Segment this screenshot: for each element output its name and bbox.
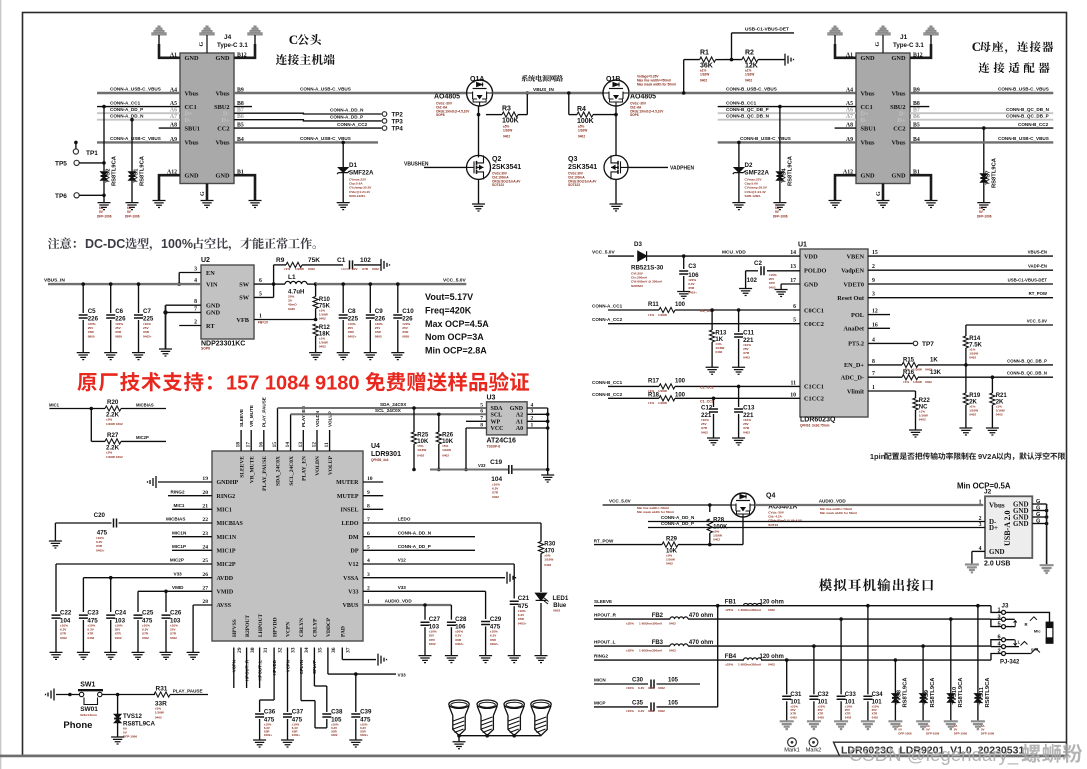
svg-text:DP: DP xyxy=(351,549,359,555)
svg-text:MIC2P: MIC2P xyxy=(136,435,149,440)
svg-text:100: 100 xyxy=(675,378,686,384)
svg-text:C37: C37 xyxy=(292,709,304,716)
resistor R1 36K xyxy=(683,60,685,93)
svg-text:102: 102 xyxy=(360,257,371,264)
svg-text:GND: GND xyxy=(206,303,220,310)
svg-text:G: G xyxy=(200,191,206,196)
svg-text:0402: 0402 xyxy=(715,350,722,354)
svg-text:100K: 100K xyxy=(502,118,519,125)
svg-text:C1CC1: C1CC1 xyxy=(804,384,824,391)
svg-text:C: C xyxy=(972,39,981,54)
svg-text:G: G xyxy=(1036,519,1040,525)
capacitor C10 xyxy=(396,282,400,286)
title block box xyxy=(834,742,1067,756)
svg-text:RS8TL9CA: RS8TL9CA xyxy=(930,677,936,708)
svg-text:1pin: 1pin xyxy=(870,452,886,461)
svg-text:13K: 13K xyxy=(930,370,942,376)
net AUDIO_VDD to J2 xyxy=(755,504,983,506)
svg-text:0402: 0402 xyxy=(155,716,162,720)
TVS12 diode xyxy=(117,695,119,738)
svg-text:24: 24 xyxy=(202,545,208,551)
svg-text:1/16W: 1/16W xyxy=(417,448,426,452)
svg-text:R31: R31 xyxy=(156,686,168,693)
svg-text:C31: C31 xyxy=(790,692,802,698)
net VBUSHEN to Q2 gate xyxy=(424,166,467,168)
svg-text:FB=1V: FB=1V xyxy=(258,321,269,325)
diode D3 RB521S-30 xyxy=(638,251,647,261)
svg-text:C36: C36 xyxy=(264,709,276,716)
svg-text:0402: 0402 xyxy=(769,285,776,289)
svg-text:LDR9301: LDR9301 xyxy=(371,451,401,458)
net CONN-B_USB-C_VBUS (J1 B4) xyxy=(910,141,1053,143)
svg-text:G: G xyxy=(199,42,205,47)
chassis symbol at R2 end xyxy=(785,54,794,66)
chassis at SW1 left xyxy=(46,689,55,701)
junction R1-R2 xyxy=(730,58,734,62)
test point TP5 xyxy=(74,160,79,165)
net CONN-A_DD_N to J2 xyxy=(648,521,985,523)
VFB node xyxy=(254,319,316,321)
svg-text:R15: R15 xyxy=(903,357,915,363)
svg-text:GND: GND xyxy=(892,55,906,62)
svg-text:SMF22A: SMF22A xyxy=(349,170,374,177)
svg-text:R13: R13 xyxy=(715,331,727,337)
svg-text:VR_MUTE: VR_MUTE xyxy=(249,456,255,484)
svg-text:C13: C13 xyxy=(743,405,755,412)
svg-text:CRLYN: CRLYN xyxy=(299,618,305,637)
svg-text:Vlimit: Vlimit xyxy=(847,388,865,395)
svg-text:VBUSHEN: VBUSHEN xyxy=(404,162,429,168)
svg-text:Max OCP=4.5A: Max OCP=4.5A xyxy=(425,319,489,329)
svg-text:Type-C 3.1: Type-C 3.1 xyxy=(217,42,248,49)
svg-text:U1: U1 xyxy=(798,242,807,249)
svg-text:CRLYP: CRLYP xyxy=(313,618,319,637)
svg-text:CONN-B_USB-C_VBUS: CONN-B_USB-C_VBUS xyxy=(726,87,777,92)
svg-text:GND: GND xyxy=(861,173,875,180)
net VBUS-EN xyxy=(868,255,1053,257)
svg-text:SLEEVE: SLEEVE xyxy=(239,456,245,478)
svg-text:102: 102 xyxy=(747,277,758,284)
capacitor C13 221 xyxy=(737,385,741,389)
svg-text:0402: 0402 xyxy=(372,267,379,271)
svg-text:10: 10 xyxy=(790,392,796,398)
svg-text:±5%: ±5% xyxy=(106,451,112,455)
svg-text:±1%: ±1% xyxy=(648,401,654,405)
svg-text:L: L xyxy=(1018,639,1021,644)
svg-text:1/16W: 1/16W xyxy=(295,267,304,271)
U4 bottom stubs pins 29-31 xyxy=(233,648,235,689)
net RT_POW / resistor R29 10K xyxy=(594,544,662,546)
svg-text:V33: V33 xyxy=(174,571,183,576)
svg-text:MIC1N: MIC1N xyxy=(172,530,187,535)
svg-text:C20: C20 xyxy=(94,512,106,519)
svg-text:1: 1 xyxy=(259,314,262,320)
svg-text:4: 4 xyxy=(367,558,370,564)
svg-text:R19: R19 xyxy=(969,393,981,399)
svg-text:HPOUT_R: HPOUT_R xyxy=(244,659,249,681)
net D+ (B6) to DD_P xyxy=(234,120,382,121)
svg-text:1/16W: 1/16W xyxy=(658,401,667,405)
svg-text:31: 31 xyxy=(263,647,269,653)
net VADPHEN to Q3 gate xyxy=(628,166,668,168)
watermark CSDN @legendary_螺蛳粉 xyxy=(849,744,1082,766)
svg-text:0402+: 0402+ xyxy=(518,621,527,625)
svg-text:C2: C2 xyxy=(754,260,762,267)
capacitor C2 102 xyxy=(767,270,800,272)
svg-text:R4: R4 xyxy=(577,106,586,113)
svg-text:SW: SW xyxy=(239,281,250,288)
net RT_POW xyxy=(868,297,1053,299)
net RING2 pin20 xyxy=(168,495,212,497)
stub SBU1 (J1 A8) xyxy=(835,127,856,129)
svg-text:Vbus: Vbus xyxy=(185,90,200,97)
net DP CONN-A_DD_P xyxy=(363,549,475,551)
svg-text:RS8TL9CA: RS8TL9CA xyxy=(958,677,964,708)
svg-text:FB4: FB4 xyxy=(725,654,737,660)
svg-text:LDR6023Q: LDR6023Q xyxy=(800,417,836,424)
wire A12 to ground xyxy=(835,175,856,200)
svg-text:0402+: 0402+ xyxy=(143,334,152,338)
svg-text:C23: C23 xyxy=(87,610,99,617)
capacitor C9 xyxy=(369,282,373,286)
wire bottom shield G to ground xyxy=(882,184,885,201)
net SLEEVE / FB1 120ohm xyxy=(594,605,991,607)
wire MICP rise to SLEEVE xyxy=(717,606,719,707)
capacitor C26 103 xyxy=(162,615,171,618)
svg-text:C: C xyxy=(289,32,298,47)
junction SW node xyxy=(254,283,274,285)
svg-text:VCC_5.0V: VCC_5.0V xyxy=(592,250,615,256)
svg-text:1/16W: 1/16W xyxy=(503,128,512,132)
IC U2 NDP23301KC xyxy=(201,265,254,339)
svg-text:EN_D+: EN_D+ xyxy=(844,362,864,369)
capacitor C34 101 xyxy=(866,604,870,608)
svg-text:LEDO: LEDO xyxy=(341,521,358,527)
svg-text:R28: R28 xyxy=(713,518,725,524)
svg-text:GND: GND xyxy=(185,55,199,62)
net B4 VBUS xyxy=(234,141,378,143)
svg-text:0402+: 0402+ xyxy=(360,733,368,737)
svg-text:SW01: SW01 xyxy=(80,706,98,713)
svg-text:VMID: VMID xyxy=(172,585,184,590)
svg-text:DFP-1006: DFP-1006 xyxy=(123,735,137,739)
svg-text:CONN-A_DD_N: CONN-A_DD_N xyxy=(398,530,432,535)
svg-text:1/16W 0402: 1/16W 0402 xyxy=(106,455,123,459)
connector J1 body xyxy=(856,53,910,184)
wire J2 GND to ground xyxy=(972,550,985,552)
resistor R3 100K xyxy=(486,114,502,116)
svg-text:MIC1: MIC1 xyxy=(49,402,60,407)
stub SBU1 (A8) xyxy=(159,127,180,129)
svg-text:VIN: VIN xyxy=(206,281,218,288)
svg-text:VadpEN: VadpEN xyxy=(841,268,864,275)
junction R1 branch xyxy=(682,91,686,95)
svg-text:±5%: ±5% xyxy=(106,418,112,422)
svg-text:CONN-A_DD_P: CONN-A_DD_P xyxy=(110,107,143,112)
svg-text:1 60Ohm350mA: 1 60Ohm350mA xyxy=(738,663,762,667)
svg-text:VOLDN: VOLDN xyxy=(315,456,321,476)
svg-text:Type-C 3.1: Type-C 3.1 xyxy=(893,42,924,49)
U4 top stubs with net labels xyxy=(240,430,242,451)
wire HPVDD pin32 to C36 xyxy=(273,648,275,701)
svg-text:SCL: SCL xyxy=(491,413,503,419)
power earth symbols above J4 xyxy=(152,26,166,35)
svg-text:C1: C1 xyxy=(337,257,346,264)
svg-text:GND: GND xyxy=(892,173,906,180)
svg-text:C8: C8 xyxy=(348,308,356,315)
svg-text:R27: R27 xyxy=(107,432,119,439)
LED1 Blue xyxy=(536,593,549,604)
heading 连接主机端 xyxy=(276,54,335,65)
svg-text:±25%: ±25% xyxy=(725,663,733,667)
svg-text:USB-C1-VBUS-DET: USB-C1-VBUS-DET xyxy=(1008,278,1048,283)
svg-text:1/16W: 1/16W xyxy=(658,389,667,393)
resistor R4 100K xyxy=(568,93,570,115)
svg-text:J2: J2 xyxy=(984,489,992,496)
svg-text:GND: GND xyxy=(185,173,199,180)
svg-text:R20: R20 xyxy=(107,399,119,406)
TVS9 diode xyxy=(921,644,925,648)
capacitor C5 xyxy=(81,282,85,286)
svg-text:DFP-1006: DFP-1006 xyxy=(898,732,912,736)
svg-text:470 ohm: 470 ohm xyxy=(689,613,713,619)
svg-text:gnd: gnd xyxy=(1031,647,1039,652)
svg-text:0402: 0402 xyxy=(87,636,94,640)
svg-text:0402: 0402 xyxy=(442,454,449,458)
svg-text:CONN-B_QC_DB_P: CONN-B_QC_DB_P xyxy=(1007,358,1047,363)
svg-text:GND: GND xyxy=(206,310,220,317)
resistor R9 75K xyxy=(273,265,275,284)
chassis on GNDHP pin19 xyxy=(158,481,212,483)
stub SBU2 (J1 B8) xyxy=(910,106,929,108)
svg-text:28: 28 xyxy=(202,599,208,605)
svg-text:FB2: FB2 xyxy=(652,613,664,619)
svg-text:SOT23: SOT23 xyxy=(768,523,778,527)
svg-text:TP5: TP5 xyxy=(55,161,67,168)
svg-text:G: G xyxy=(1036,506,1040,512)
frame bottom thick line xyxy=(0,755,1066,758)
svg-text:C22: C22 xyxy=(60,610,72,617)
net CONN-A_CC1 / R11 xyxy=(608,309,659,311)
svg-text:120 ohm: 120 ohm xyxy=(760,599,784,605)
svg-text:USB-A 2.0: USB-A 2.0 xyxy=(1003,510,1012,546)
svg-text:25: 25 xyxy=(202,558,208,564)
svg-text:Vbus: Vbus xyxy=(989,501,1005,509)
svg-text:C28: C28 xyxy=(455,616,467,623)
svg-text:1 60Ohm350mA: 1 60Ohm350mA xyxy=(639,649,663,653)
svg-text:VMID: VMID xyxy=(217,590,234,596)
svg-text:1/16W: 1/16W xyxy=(700,72,709,76)
svg-text:±10%: ±10% xyxy=(626,709,634,713)
svg-text:VCC_5.0V: VCC_5.0V xyxy=(609,499,632,504)
resistor R21 2K xyxy=(991,377,993,393)
net USB-C1-VBUS-DET xyxy=(868,283,1053,285)
svg-text:DFP-1006: DFP-1006 xyxy=(773,215,788,219)
capacitor C33 101 xyxy=(839,617,843,621)
svg-text:C25: C25 xyxy=(142,610,154,617)
page edge line xyxy=(0,0,2,769)
svg-text:L1: L1 xyxy=(288,274,296,281)
svg-text:C10: C10 xyxy=(402,308,414,315)
svg-text:TP7: TP7 xyxy=(922,341,934,348)
D2 TVS diode SMF22A xyxy=(737,141,741,145)
svg-text:105: 105 xyxy=(668,678,679,684)
capacitor C8 xyxy=(341,282,345,286)
net MCU_VDD xyxy=(646,255,800,257)
svg-text:MICBIAS: MICBIAS xyxy=(166,517,185,522)
svg-text:D+: D+ xyxy=(989,524,998,532)
resistor R25 10K xyxy=(412,406,416,410)
wire A1 to earth xyxy=(835,44,856,58)
svg-text:Nom OCP=3A: Nom OCP=3A xyxy=(425,332,484,342)
svg-text:SOT323: SOT323 xyxy=(492,183,504,187)
wire SW1 to R31 xyxy=(102,694,155,696)
capacitor C36 475 xyxy=(255,714,264,717)
svg-text:MICP: MICP xyxy=(594,701,605,706)
svg-text:30: 30 xyxy=(250,647,256,653)
svg-text:2: 2 xyxy=(194,320,197,326)
J3 L-channel contact xyxy=(1005,639,1014,641)
net HPOUT_L / FB3 470ohm xyxy=(594,645,670,647)
svg-text:V12: V12 xyxy=(348,562,358,568)
svg-text:5: 5 xyxy=(259,291,262,297)
svg-text:Vbus: Vbus xyxy=(891,90,906,97)
svg-text:G: G xyxy=(875,42,881,47)
svg-text:0402: 0402 xyxy=(701,430,708,434)
svg-text:PLAY_EN: PLAY_EN xyxy=(302,456,308,481)
stub RT pin xyxy=(179,325,201,327)
wire U3 GND/A pins to ground xyxy=(527,407,548,409)
svg-text:G: G xyxy=(1036,499,1040,505)
net VMID pin27 xyxy=(138,590,212,592)
svg-text:0402: 0402 xyxy=(658,686,665,690)
svg-text:36: 36 xyxy=(331,647,337,653)
net EN_D+ / R15 1K xyxy=(868,364,902,366)
svg-text:9: 9 xyxy=(367,490,370,496)
capacitor C3 106 xyxy=(682,254,686,258)
svg-text:RB521S-30: RB521S-30 xyxy=(631,265,664,272)
svg-text:PT5.2: PT5.2 xyxy=(848,341,864,348)
svg-text:C27: C27 xyxy=(429,616,441,623)
svg-text:23: 23 xyxy=(202,531,208,537)
test point TP6 xyxy=(74,193,79,198)
svg-text:V33: V33 xyxy=(398,672,407,677)
svg-text:C12: C12 xyxy=(701,405,713,412)
svg-text:R2: R2 xyxy=(745,50,754,57)
net D- (B7) to DD_N xyxy=(234,112,382,115)
svg-text:D2: D2 xyxy=(745,162,753,169)
svg-text:Vbus: Vbus xyxy=(215,90,230,97)
svg-text:AnaDet: AnaDet xyxy=(843,326,865,333)
svg-text:SOD-123FL: SOD-123FL xyxy=(349,194,366,198)
svg-text:0402: 0402 xyxy=(790,715,797,719)
net CONN-A_USB-C_VBUS (A9) xyxy=(97,141,180,143)
wire EN tie xyxy=(179,272,201,274)
resistor R31 33R xyxy=(154,692,170,697)
screw 4 xyxy=(531,700,551,736)
chassis on VSSA pin3 xyxy=(363,577,505,579)
svg-text:EN: EN xyxy=(206,270,215,277)
svg-text:J3: J3 xyxy=(1002,603,1009,610)
net AVSS pin28 to ground xyxy=(193,604,212,606)
svg-text:FB3: FB3 xyxy=(652,640,664,646)
svg-text:0402+: 0402+ xyxy=(455,642,464,646)
svg-text:C6: C6 xyxy=(115,308,123,315)
svg-text:9: 9 xyxy=(872,278,875,284)
stub AnaDet xyxy=(868,327,890,329)
resistor R13 1K xyxy=(710,308,714,312)
svg-text:MCU_VDD: MCU_VDD xyxy=(722,250,746,256)
net ADC_D- / R16 13K xyxy=(868,376,902,378)
svg-text:MIC1P: MIC1P xyxy=(217,549,236,555)
svg-text:37: 37 xyxy=(346,647,352,653)
svg-text:5: 5 xyxy=(367,545,370,551)
svg-text:R: R xyxy=(1025,622,1028,627)
svg-text:GND: GND xyxy=(216,173,230,180)
power earth symbols above J1 xyxy=(828,26,842,35)
svg-text:CFLYN: CFLYN xyxy=(299,660,304,674)
svg-text:0402: 0402 xyxy=(818,715,825,719)
svg-text:R29: R29 xyxy=(666,537,678,543)
svg-text:1/16W: 1/16W xyxy=(745,72,754,76)
svg-text:CONN-A_DD_N: CONN-A_DD_N xyxy=(661,515,695,520)
svg-text:CONN-B_QC_DB_N: CONN-B_QC_DB_N xyxy=(1007,371,1047,376)
svg-text:1/16W: 1/16W xyxy=(578,128,587,132)
svg-text:RS8TL9CA: RS8TL9CA xyxy=(902,677,908,708)
net MIC1P pin24 xyxy=(172,549,212,551)
svg-text:CC2: CC2 xyxy=(217,125,229,132)
svg-text:2.0 USB: 2.0 USB xyxy=(984,561,1010,568)
svg-text:VDET0: VDET0 xyxy=(843,281,864,288)
capacitor C20 475 on MICBIAS xyxy=(55,522,111,524)
svg-text:DC-DC: DC-DC xyxy=(85,237,125,251)
svg-text:POL: POL xyxy=(851,312,864,319)
svg-text:VCC_5.0V: VCC_5.0V xyxy=(443,278,466,284)
wire Q1A gate down xyxy=(478,106,480,157)
svg-text:0603: 0603 xyxy=(553,609,560,613)
connector J2 USB-A 2.0 xyxy=(985,496,1032,558)
svg-text:R12: R12 xyxy=(319,325,331,331)
net CONN-B_USB-C_VBUS (J1 B9) xyxy=(910,92,1053,94)
inductor L1 4.7uH xyxy=(274,283,285,285)
svg-text:AVDD: AVDD xyxy=(217,576,234,582)
svg-text:VCPN: VCPN xyxy=(232,660,237,672)
IC U1 LDR6023Q xyxy=(800,249,868,417)
svg-text:CONN-B_QC_DB_N: CONN-B_QC_DB_N xyxy=(1006,107,1050,112)
net CONN-B_QC_DB_P (J1 B6) xyxy=(910,119,1053,121)
svg-text:0402: 0402 xyxy=(115,636,122,640)
wire Q3 source to ground xyxy=(615,179,617,204)
capacitor C31 101 xyxy=(785,658,789,662)
capacitor C1 102 xyxy=(350,260,353,269)
svg-text:6x6x4.5mm: 6x6x4.5mm xyxy=(80,713,97,717)
svg-text:RT_POW: RT_POW xyxy=(1029,291,1048,296)
svg-text:0402: 0402 xyxy=(919,418,926,422)
stub MUTER xyxy=(363,481,383,483)
svg-text:DM: DM xyxy=(349,535,359,541)
svg-text:0402: 0402 xyxy=(669,649,676,653)
svg-text:Vbus: Vbus xyxy=(215,140,230,147)
svg-text:RS8TL9CA: RS8TL9CA xyxy=(985,677,991,708)
svg-text:X5R: X5R xyxy=(648,709,655,713)
svg-text:0402: 0402 xyxy=(666,562,673,566)
net CONN-B_QC_DB_N (J1 B7) xyxy=(910,112,1053,114)
svg-text:CONN-A_DD_N: CONN-A_DD_N xyxy=(110,114,144,119)
svg-text:VCC_5.0V: VCC_5.0V xyxy=(1027,319,1047,324)
svg-text:Min OCP=2.8A: Min OCP=2.8A xyxy=(425,346,487,356)
svg-text:±25%: ±25% xyxy=(725,608,733,612)
svg-text:GND: GND xyxy=(510,406,524,412)
